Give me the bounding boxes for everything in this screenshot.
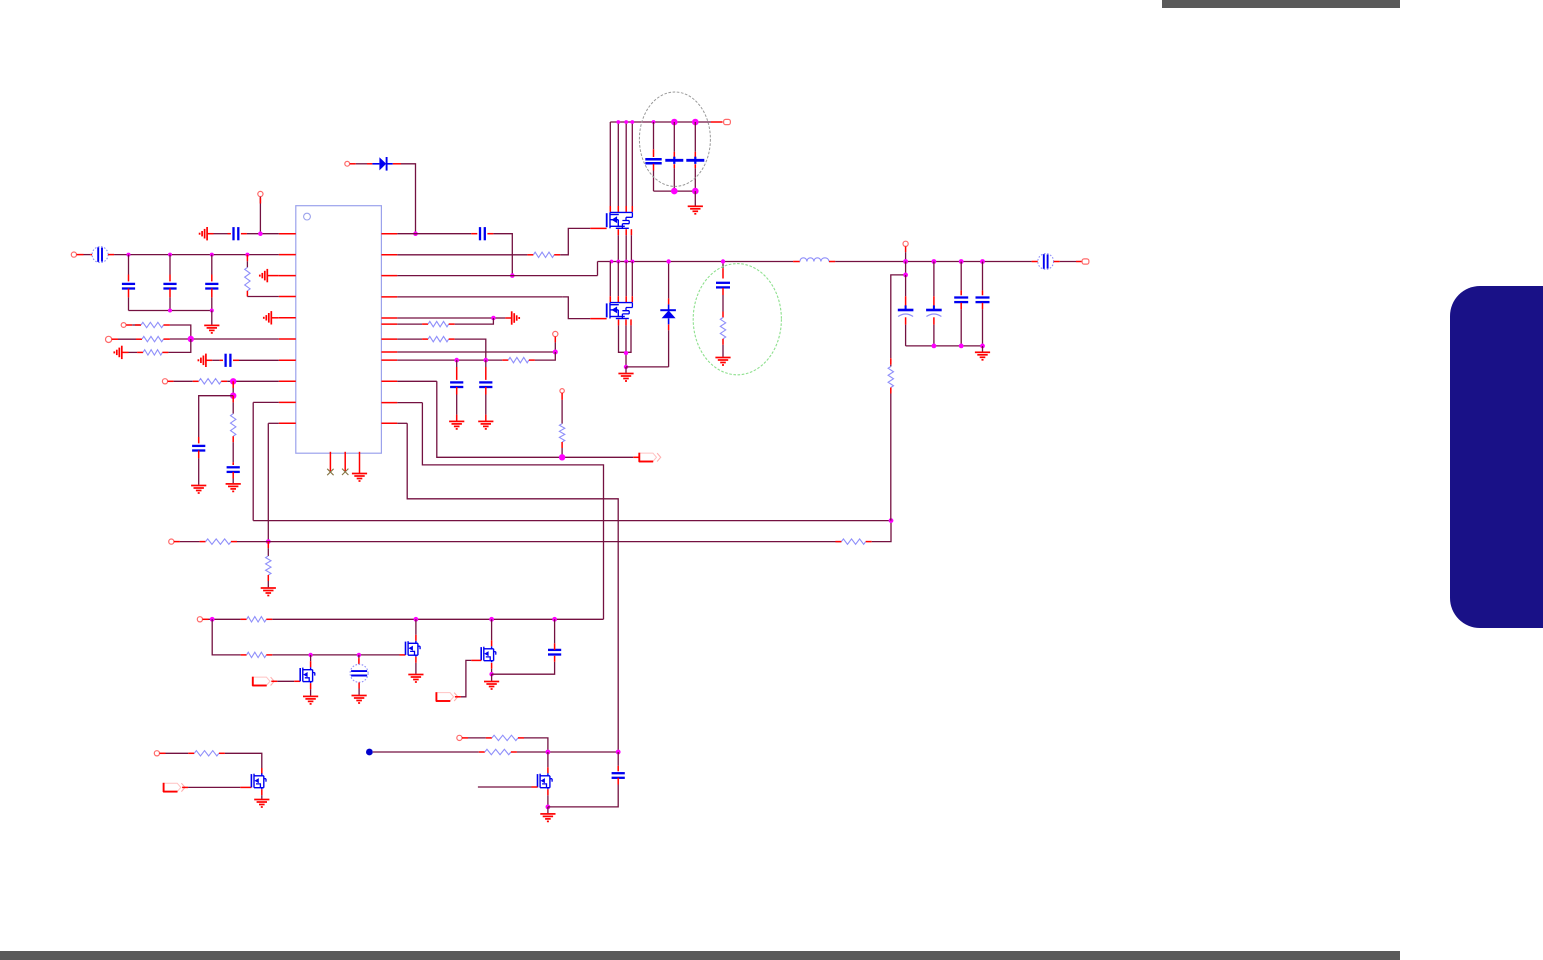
- junction: [616, 260, 620, 264]
- wire C7 to ground: [232, 472, 234, 479]
- wire R4 to junction: [162, 351, 168, 353]
- wire ground node to D2: [626, 366, 669, 368]
- resistor R2 lead: [126, 324, 132, 326]
- Q2 drain verticals from SW: [610, 262, 632, 303]
- ground under IC bottom pin: [352, 474, 367, 482]
- ground G16: [254, 800, 269, 808]
- wire R19 to Q7 drain: [219, 752, 225, 754]
- port P9 (small): [560, 389, 564, 393]
- wire pin1R to C8: [397, 233, 471, 235]
- ground G17: [540, 814, 555, 822]
- input capacitor C3 lower lead: [169, 289, 171, 298]
- port P3: [121, 323, 126, 328]
- junction: [210, 253, 214, 257]
- wire pin7R to R12: [397, 338, 422, 340]
- junction: [903, 259, 908, 264]
- top banner bar: [1162, 0, 1400, 8]
- resistor R7: [206, 539, 231, 544]
- wire Q8 source to ground: [547, 807, 549, 813]
- junction: [666, 259, 670, 263]
- ground G13: [303, 696, 318, 704]
- Q8 source down: [547, 789, 549, 795]
- capacitor C9 to ground: [456, 387, 458, 395]
- capacitor C1: [234, 227, 239, 240]
- resistor R12: [428, 336, 449, 341]
- resistor R19: [194, 751, 219, 756]
- junction: [980, 259, 985, 264]
- wire C19 top to rail: [554, 643, 556, 650]
- junction: [127, 253, 131, 257]
- resistor R14 (vertical): [561, 393, 563, 400]
- capacitor C8: [480, 227, 485, 240]
- ground G6: [449, 421, 464, 429]
- no-connect X pin 1: [327, 469, 333, 475]
- output bead FB2 (cap-in-circle): [1038, 254, 1054, 270]
- off-page connector OP3: [436, 692, 458, 701]
- resistor R6 bottom lead: [232, 436, 234, 442]
- junction: [932, 344, 937, 349]
- wire C1 to IC pin1: [241, 233, 247, 235]
- wire inductor to output bead: [835, 261, 1031, 263]
- input capacitor C2 lower lead: [128, 289, 130, 298]
- resistor R6 (vertical) top lead: [232, 396, 234, 403]
- junction: [959, 344, 964, 349]
- wire R21 to junctions: [511, 751, 517, 753]
- ground GL3 (rotated, IC pin5): [264, 311, 272, 324]
- junction: [210, 617, 215, 622]
- input capacitor C4 lead: [211, 255, 213, 275]
- Q5 source to ground: [310, 683, 312, 689]
- capacitor C11 (ellipse group): [653, 122, 655, 149]
- port P1 (top of bypass): [258, 191, 263, 196]
- junction: [671, 119, 678, 126]
- wire FB2 to port: [1054, 261, 1060, 263]
- ground G12: [408, 675, 423, 683]
- junction: [616, 120, 620, 124]
- wire OP4 to Q7 gate: [182, 786, 188, 788]
- ground G5: [261, 588, 276, 596]
- input capacitor C4 lower lead: [211, 289, 213, 298]
- Q2 source stubs: [619, 319, 632, 325]
- resistor R21: [485, 749, 511, 754]
- input capacitor C2 lead: [128, 255, 130, 275]
- capacitor C10: [479, 382, 492, 387]
- net stub (blue dot): [366, 749, 373, 756]
- wire pin8R to junction: [397, 351, 555, 353]
- junction: [630, 120, 634, 124]
- input caps bottom bus: [129, 310, 212, 312]
- diode D1: [372, 157, 392, 171]
- resistor R1: [245, 267, 250, 290]
- junction: [489, 617, 494, 622]
- wire pin11R to bottom rail (net D): [397, 402, 422, 404]
- ellipse caps bottom bus: [654, 190, 696, 192]
- wire C18 to R16: [722, 288, 724, 295]
- capacitor C5: [226, 354, 231, 367]
- junction: [168, 309, 172, 313]
- port P11 (output oval): [1082, 259, 1089, 264]
- wire OP3 to Q6 gate: [455, 696, 461, 698]
- junction: [610, 260, 614, 264]
- ground GR1 (rotated right): [512, 311, 520, 324]
- wire P1 to junction: [259, 197, 261, 234]
- mosfet Q4: [406, 641, 421, 657]
- wire R15 down to FB node: [890, 388, 892, 394]
- port P12 (output sense top): [903, 241, 908, 246]
- port P6: [169, 539, 174, 544]
- wire OP2 to Q5 gate: [271, 680, 277, 682]
- resistor R15 (FB top, vertical): [888, 367, 893, 388]
- output capacitor C14 (polarized): [905, 275, 907, 296]
- resistor R4 lead: [122, 351, 129, 353]
- ground GL2 (rotated, IC pin3): [260, 269, 268, 282]
- wire rail: [266, 618, 272, 620]
- no-connect X pin 2: [342, 469, 348, 475]
- port P2 (input): [71, 252, 76, 257]
- capacitor C10 to ground: [485, 387, 487, 395]
- junction: [210, 309, 214, 313]
- ground G4: [226, 484, 241, 492]
- junction: [230, 393, 236, 399]
- resistor R18: [247, 652, 267, 657]
- mosfet Q7: [251, 773, 266, 789]
- resistor R16 (vertical): [720, 318, 725, 339]
- capacitor C18: [716, 283, 730, 288]
- junction: [357, 653, 361, 657]
- port P15: [457, 735, 462, 740]
- capacitor C10 lead: [485, 360, 487, 367]
- wire pin4R to Q2 gate: [397, 296, 562, 298]
- port P14: [154, 751, 159, 756]
- wire P14 to R19: [160, 752, 166, 754]
- junction: [168, 253, 172, 257]
- junction: [491, 316, 496, 321]
- wire R11 to junction: [449, 323, 455, 325]
- off-page connector OP4: [163, 783, 185, 792]
- capacitor C19: [548, 650, 561, 655]
- port P8: [553, 331, 558, 336]
- junction: [624, 260, 628, 264]
- port P5: [162, 379, 167, 384]
- wire junction down: [232, 381, 234, 388]
- drain bus verticals: [610, 122, 632, 212]
- Q7 source to ground: [261, 789, 263, 795]
- wire pin9R with R13 up to junction: [397, 359, 502, 361]
- wire R20 down to node: [518, 737, 524, 739]
- IC U1 body: [296, 206, 382, 454]
- wire to cap chain left: [199, 396, 234, 437]
- wire pin6R via R11 up to junction: [397, 323, 422, 325]
- wire P13 to rail: [203, 618, 209, 620]
- wire Q6 source to C19: [492, 662, 555, 674]
- output capacitor C15 (polarized): [933, 262, 935, 297]
- ground G11: [715, 358, 730, 366]
- port P7: [345, 161, 350, 166]
- ground G7: [478, 421, 493, 429]
- junction: [980, 344, 985, 349]
- junction: [266, 539, 271, 544]
- junction: [552, 617, 557, 622]
- ground G8: [688, 206, 703, 214]
- mosfet Q6: [481, 646, 496, 662]
- capacitor C12 (polarized): [673, 122, 675, 152]
- junction: [692, 119, 699, 126]
- diode D2 (schottky): [668, 330, 670, 367]
- wire R5 to IC pin8: [221, 380, 227, 382]
- wire C5 to IC pin7: [233, 359, 239, 361]
- resistor R5 lead: [168, 380, 174, 382]
- resistor R9 (vertical) below junction: [267, 542, 269, 549]
- junction: [624, 365, 628, 369]
- mosfet Q5: [300, 667, 315, 683]
- junction: [959, 259, 964, 264]
- junction: [553, 350, 558, 355]
- input capacitor C2: [122, 284, 135, 289]
- ground G10: [975, 352, 990, 360]
- wire to ground: [694, 191, 696, 206]
- wire to Q4 gate: [266, 654, 272, 656]
- mosfet Q1 (high side): [607, 212, 633, 228]
- junction (FB node): [889, 518, 894, 523]
- wire P6 to R7: [174, 541, 180, 543]
- capacitor C13 (polarized): [694, 122, 696, 152]
- junction: [721, 259, 725, 263]
- resistor R13: [508, 357, 529, 362]
- off-page connector OP2: [252, 677, 274, 686]
- wire bus to ground: [211, 311, 213, 325]
- junction: [616, 750, 621, 755]
- input capacitor C4: [205, 284, 218, 289]
- wire P7 to D1: [350, 163, 356, 165]
- IC U1 right pins: [381, 234, 397, 424]
- capacitor C9 lead: [456, 360, 458, 367]
- wire GL3 to pin5: [271, 317, 279, 319]
- junction: [454, 358, 459, 363]
- port P4 (octagon): [106, 336, 112, 342]
- junction: [484, 358, 489, 363]
- mosfet Q2 (low side): [607, 303, 633, 319]
- bottom banner bar: [0, 951, 1400, 960]
- wire IC pin9 left and down (net A): [253, 401, 279, 403]
- ground G15: [484, 682, 499, 690]
- ground G9: [625, 367, 627, 373]
- resistor R2: [141, 322, 164, 327]
- junction: [624, 120, 628, 124]
- filter bead FB1 (cap-in-circle): [92, 247, 108, 263]
- input capacitor C3 lead: [169, 255, 171, 275]
- wire Q8 gate stub: [478, 786, 532, 788]
- wire GL1 to C1: [207, 233, 213, 235]
- junction: [631, 260, 635, 264]
- wire pin12R to bottom net (net E): [397, 422, 407, 424]
- wire R7 to junction and right (net B): [231, 541, 237, 543]
- junction: [559, 454, 565, 460]
- Q6 source wire: [491, 663, 493, 669]
- resistor R8: [841, 539, 865, 544]
- ground G3: [191, 486, 206, 494]
- ground GL1 (rotated): [200, 227, 208, 240]
- highlight ellipse (green): [693, 264, 781, 375]
- output capacitor C17: [982, 262, 984, 291]
- wire top bus: [610, 121, 711, 123]
- wire IC pin10 left and down (net B): [268, 422, 279, 424]
- junction: [652, 120, 656, 124]
- wire R16 to ground: [722, 339, 724, 345]
- ground G2: [204, 325, 219, 333]
- Q2 source wires to ground node: [619, 325, 632, 352]
- junction (resistor network): [188, 336, 194, 342]
- wire R2 to junction: [164, 324, 170, 326]
- wire rail branch down: [212, 619, 240, 655]
- ground G14: [352, 696, 367, 704]
- wire C8 right and down: [487, 233, 493, 235]
- resistor R4: [143, 350, 162, 355]
- wire R8 leads: [835, 541, 841, 543]
- wire P2 to bead: [77, 254, 84, 256]
- wire FB1 to IC pin2: [108, 254, 114, 256]
- junction: [903, 273, 908, 278]
- wire R12 down to row9: [449, 338, 455, 340]
- output caps bottom bus: [906, 345, 983, 347]
- off-page connector OP1: [639, 453, 661, 462]
- resistor R10: [533, 252, 554, 257]
- wire R10 to Q1 gate: [554, 254, 560, 256]
- side tab (navy): [1450, 286, 1543, 628]
- output capacitor C16: [960, 262, 962, 291]
- resistor R3: [142, 336, 164, 341]
- capacitor C7: [227, 467, 240, 472]
- resistor R3 lead: [112, 338, 118, 340]
- junction: [510, 273, 515, 278]
- junction: [624, 351, 628, 355]
- wire net A horizontal: [253, 520, 891, 522]
- wire P12 down to bus: [905, 246, 907, 252]
- port P13: [197, 617, 202, 622]
- wire D1 to IC pin1 row: [393, 163, 401, 165]
- resistor R1 bottom lead to IC pin4: [246, 291, 248, 297]
- junction: [671, 188, 678, 195]
- resistor R6: [231, 414, 236, 437]
- wire GL2 to pin3: [267, 275, 279, 277]
- resistor R11: [428, 321, 449, 326]
- port P10 (oval): [724, 119, 731, 124]
- wire P8 down: [554, 337, 556, 343]
- wire C6 to ground: [198, 451, 200, 459]
- wire R3 to IC pin6: [164, 338, 170, 340]
- junction: [413, 231, 418, 236]
- inductor L1: [793, 261, 800, 263]
- ground GL5 (rotated): [198, 354, 206, 367]
- wire pin10R down to net C: [397, 380, 437, 382]
- junction: [546, 750, 551, 755]
- wire pin2R to R10: [397, 254, 527, 256]
- Q4 drain wire: [415, 619, 417, 635]
- wire GL5 to C5: [206, 359, 212, 361]
- junction: [308, 653, 312, 657]
- wire blue dot to net E: [373, 751, 479, 753]
- mosfet Q8: [538, 773, 553, 789]
- resistor R17: [247, 617, 267, 622]
- Q4 source to ground: [415, 657, 417, 663]
- highlight ellipse (gray): [639, 92, 710, 186]
- junction: [546, 805, 551, 810]
- IC U1 left pins: [279, 234, 296, 424]
- junction: [230, 378, 236, 384]
- junction: [932, 259, 937, 264]
- capacitor C6: [192, 446, 205, 451]
- Q5 drain wire: [310, 655, 312, 661]
- wire P15 to R20: [462, 737, 468, 739]
- junction: [258, 231, 263, 236]
- resistor R1 (vertical) top lead: [246, 255, 248, 262]
- SW bus: [598, 261, 794, 263]
- wire Q6 source to ground: [491, 674, 493, 681]
- resistor R20: [492, 735, 518, 740]
- capacitor C20 branch: [617, 752, 619, 766]
- wire R13 to junction: [529, 359, 535, 361]
- crystal Y1 (cap-in-circle horizontal): [358, 655, 360, 658]
- input capacitor C3: [163, 284, 176, 289]
- capacitor C9: [450, 382, 463, 387]
- wire node down to Q8 drain: [547, 752, 549, 767]
- junction: [245, 253, 249, 257]
- wire to ground G10: [982, 346, 984, 352]
- wire pin5R to junction: [397, 317, 493, 319]
- capacitor C18 lead: [722, 262, 724, 269]
- IC U1 bottom pins: [330, 452, 359, 474]
- resistor R5: [199, 379, 222, 384]
- Q1 source stubs and wires to SW: [618, 229, 631, 261]
- junction: [489, 672, 493, 676]
- Q6 drain wire: [491, 619, 493, 640]
- junction: [414, 617, 419, 622]
- wire bus to FB divider: [905, 262, 907, 275]
- wire pin3R to SW bus: [397, 275, 597, 277]
- ground GL4 (rotated): [114, 346, 122, 359]
- junction: [692, 188, 699, 195]
